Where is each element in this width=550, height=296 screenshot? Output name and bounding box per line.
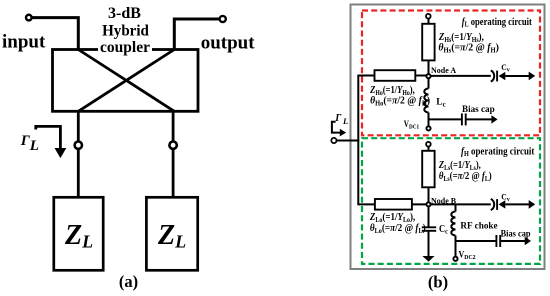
svg-text:ZL: ZL <box>64 220 93 251</box>
varactor Cv red: straight plate <box>496 71 498 82</box>
left port node circle <box>75 142 82 149</box>
ground <box>422 256 434 262</box>
vertical bus wire <box>357 76 359 205</box>
right port node circle <box>169 142 176 149</box>
svg-text:fH operating circuit: fH operating circuit <box>461 147 535 158</box>
wire input to coupler <box>32 18 78 50</box>
node B circle <box>426 202 430 206</box>
wire ZHo to node A <box>415 75 428 77</box>
svg-text:Lc: Lc <box>436 98 445 109</box>
Gamma_L arrow (b) <box>332 122 346 137</box>
load ZL box right <box>146 197 197 270</box>
input terminal (b) <box>331 138 336 143</box>
arrowhead bias cap green <box>525 237 531 245</box>
wire node A down <box>428 79 430 89</box>
load ZL box left <box>54 197 103 270</box>
wire coupler to left port circle <box>77 111 80 141</box>
wire node B down to Cc <box>428 207 430 227</box>
svg-text:VDC1: VDC1 <box>404 119 419 130</box>
svg-text:Cc: Cc <box>439 224 448 235</box>
wire Cc to ground <box>428 231 430 256</box>
svg-text:Bias cap: Bias cap <box>462 105 495 115</box>
svg-text:Cv: Cv <box>501 192 510 203</box>
ZLo transmission line <box>375 199 412 210</box>
svg-text:(a): (a) <box>119 272 138 291</box>
svg-text:θHs(=π/2 @ fH): θHs(=π/2 @ fH) <box>438 42 499 54</box>
ZHo transmission line <box>375 70 416 81</box>
svg-text:ΓL: ΓL <box>334 113 348 126</box>
wire bias cap to arrow red <box>466 118 492 120</box>
VDC1 terminal <box>426 126 430 130</box>
wire bias cap to arrow green <box>500 240 525 242</box>
svg-text:3-dB: 3-dB <box>108 5 141 22</box>
Gamma_L arrow (a) <box>36 126 67 158</box>
inductor RF choke <box>451 212 455 236</box>
bias cap green plates <box>496 235 500 247</box>
svg-text:output: output <box>201 33 256 54</box>
varactor Cv green: straight plate <box>496 199 498 210</box>
svg-text:Node B: Node B <box>431 196 457 205</box>
svg-text:θHo(=π/2 @ fH): θHo(=π/2 @ fH) <box>370 95 430 107</box>
svg-text:fL operating circuit: fL operating circuit <box>462 18 533 29</box>
svg-text:θLs(=π/2 @ fL): θLs(=π/2 @ fL) <box>439 171 492 184</box>
wire node B to varactor <box>429 203 491 205</box>
wire ZLo to node B <box>412 203 429 205</box>
top terminal green <box>426 142 431 147</box>
arrowhead right green <box>529 200 536 209</box>
wire bus to ZHo <box>357 75 374 77</box>
wire stub to node B <box>428 187 430 204</box>
label 3-dB Hybrid coupler <box>98 5 152 56</box>
varactor Cv green: diode triangle <box>499 200 506 208</box>
ZLs transmission line stub <box>422 151 434 188</box>
arrowhead bias cap red <box>491 115 497 123</box>
varactor Cv red: diode triangle <box>499 72 506 80</box>
svg-text:ZL: ZL <box>157 220 186 251</box>
svg-text:Hybrid: Hybrid <box>102 22 149 40</box>
wire junction to bias cap red <box>429 118 462 120</box>
svg-text:input: input <box>2 32 46 53</box>
hybrid coupler box <box>53 50 199 112</box>
varactor Cv green: curved plate <box>491 199 506 210</box>
coupler diagonal wire 1 <box>78 50 174 112</box>
node A circle <box>426 74 430 78</box>
wire coupler to right port circle <box>172 111 175 141</box>
wire node A to varactor <box>429 75 491 77</box>
bias cap red plates <box>462 113 466 125</box>
svg-text:coupler: coupler <box>100 39 150 56</box>
wire inductor to VDC1 <box>428 113 430 126</box>
ZHs transmission line stub <box>422 24 434 61</box>
wire junction to bias cap green <box>456 240 496 242</box>
svg-text:Cv: Cv <box>501 63 510 74</box>
inductor Lc <box>424 89 428 113</box>
svg-text:RF choke: RF choke <box>460 221 497 231</box>
arrowhead right red <box>529 72 536 81</box>
wire terminal to ZLs stub <box>428 147 430 151</box>
wire terminal to ZHs stub <box>428 19 430 24</box>
fH operating circuit green dashed box <box>362 138 540 264</box>
wire choke to VDC2 <box>455 236 457 257</box>
svg-text:Node A: Node A <box>431 66 456 75</box>
coupler diagonal wire 2 <box>78 50 174 112</box>
wire varactor to arrow green <box>505 203 529 205</box>
wire stub to node A <box>428 61 430 77</box>
svg-text:Bias cap: Bias cap <box>501 228 531 239</box>
svg-text:(b): (b) <box>428 273 448 292</box>
wire terminal to bus <box>337 140 360 142</box>
varactor Cv red: curved plate <box>491 70 506 81</box>
fL operating circuit red dashed box <box>362 11 540 136</box>
input terminal <box>26 15 32 21</box>
capacitor Cc plates <box>422 227 436 231</box>
wire bus to ZLo <box>357 203 375 205</box>
wire varactor to arrow red <box>505 75 529 77</box>
outer gray box <box>351 5 545 270</box>
VDC2 terminal <box>453 257 457 261</box>
svg-text:θLo(=π/2 @ fL): θLo(=π/2 @ fL) <box>370 222 426 235</box>
wire right port to ZL <box>172 150 175 198</box>
top terminal red <box>426 14 431 19</box>
svg-text:VDC2: VDC2 <box>459 249 476 261</box>
svg-text:ΓL: ΓL <box>20 133 39 154</box>
wire left port to ZL <box>77 150 80 198</box>
output terminal <box>220 16 226 22</box>
wire node B branch to RF choke <box>455 204 457 211</box>
wire output to coupler <box>174 19 219 50</box>
